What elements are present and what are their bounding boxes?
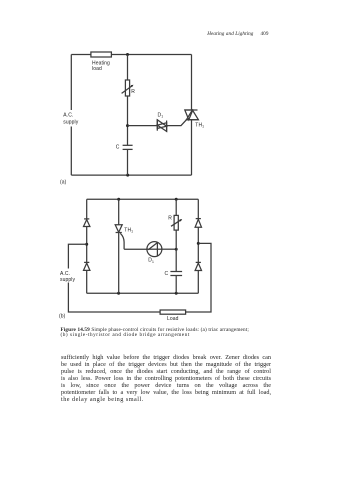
wire: middle branch upper (a)	[127, 55, 129, 81]
wire: right bridge branch upper (b)	[197, 199, 199, 219]
node: top junction (a)	[126, 53, 129, 56]
wire: top rail (b)	[87, 198, 199, 200]
svg-text:supply: supply	[60, 277, 75, 283]
wire: right rail upper (a)	[191, 55, 193, 111]
diode D-left-top	[84, 219, 90, 227]
body paragraph	[61, 354, 271, 403]
wire: R branch upper (b)	[175, 199, 177, 215]
wire: left branch middle (b)	[86, 227, 88, 264]
wire: left branch lower (b)	[86, 270, 88, 293]
wire: left bridge branch upper (b)	[86, 199, 88, 219]
label A.C. supply (b)	[58, 269, 78, 284]
svg-text:C: C	[165, 271, 169, 277]
wire: right branch middle (b)	[197, 227, 199, 263]
svg-text:A.C.: A.C.	[63, 113, 73, 119]
svg-text:D1: D1	[158, 112, 164, 118]
node: top rail R junction (b)	[175, 198, 178, 201]
svg-text:load: load	[92, 66, 102, 72]
node: RC junction (b)	[175, 248, 178, 251]
label A.C. supply (a)	[61, 110, 81, 127]
svg-text:TH1: TH1	[124, 227, 133, 233]
wire: TH1 gate curve (b)	[120, 233, 124, 249]
wire: bridge bottom rail (b)	[87, 292, 199, 294]
wire: right branch lower (b)	[197, 271, 199, 294]
wire: C to bottom rail (b)	[175, 276, 177, 294]
wire: right AC lead (b)	[186, 243, 211, 312]
svg-text:Load: Load	[167, 316, 179, 322]
wire: TH1 branch upper (b)	[118, 199, 120, 225]
potentiometer R (a)	[122, 80, 134, 96]
svg-text:R: R	[131, 89, 135, 95]
wire: left rail (a)	[70, 55, 72, 176]
triac TH1	[185, 110, 199, 120]
svg-text:(b): (b)	[59, 313, 66, 319]
diode D-right-bottom	[195, 262, 201, 270]
capacitor C (a)	[123, 145, 133, 149]
thyristor TH1 (b)	[115, 225, 122, 233]
node: bottom rail C junction (b)	[175, 292, 178, 295]
node: left AC junction (b)	[85, 243, 88, 246]
running head	[0, 31, 269, 37]
potentiometer R (b)	[171, 215, 182, 230]
svg-text:D1: D1	[148, 258, 154, 264]
resistor Load	[160, 310, 186, 314]
wire: top rail left segment (a)	[71, 54, 91, 56]
figure caption	[61, 328, 291, 339]
wire: gate horizontal to D1 (b)	[124, 248, 147, 250]
wire: junction to diac	[128, 125, 158, 127]
node: top rail TH1 junction (b)	[117, 198, 120, 201]
wire: bottom rail (a)	[71, 174, 191, 176]
svg-text:(a): (a)	[60, 180, 67, 186]
trigger device D1 (b)	[147, 242, 162, 257]
wire: middle branch mid (a)	[127, 96, 129, 145]
wire: TH1 branch lower (b)	[118, 233, 120, 294]
diode D-right-top	[195, 219, 201, 228]
wire: middle branch lower (a)	[127, 149, 129, 175]
wire: top rail right segment (a)	[111, 54, 191, 56]
node: diac junction (a)	[126, 124, 129, 127]
wire: D1 to RC junction (b)	[162, 248, 176, 250]
wire: right rail lower (a)	[191, 120, 193, 175]
svg-text:TH1: TH1	[195, 122, 204, 128]
wire: diac to triac gate	[167, 120, 187, 126]
node: right AC junction (b)	[197, 242, 200, 245]
svg-text:C: C	[116, 144, 120, 150]
wire: R to RC junction (b)	[175, 230, 177, 271]
diac D1	[157, 119, 166, 132]
svg-text:R: R	[168, 216, 172, 222]
capacitor C (b)	[170, 272, 182, 276]
node: bottom junction (a)	[126, 174, 129, 177]
wire: left AC lead (b)	[68, 244, 160, 312]
node: bottom rail TH1 junction (b)	[117, 292, 120, 295]
resistor Heating-load	[91, 52, 112, 57]
svg-text:supply: supply	[63, 120, 78, 126]
diode D-left-bottom	[84, 262, 90, 270]
